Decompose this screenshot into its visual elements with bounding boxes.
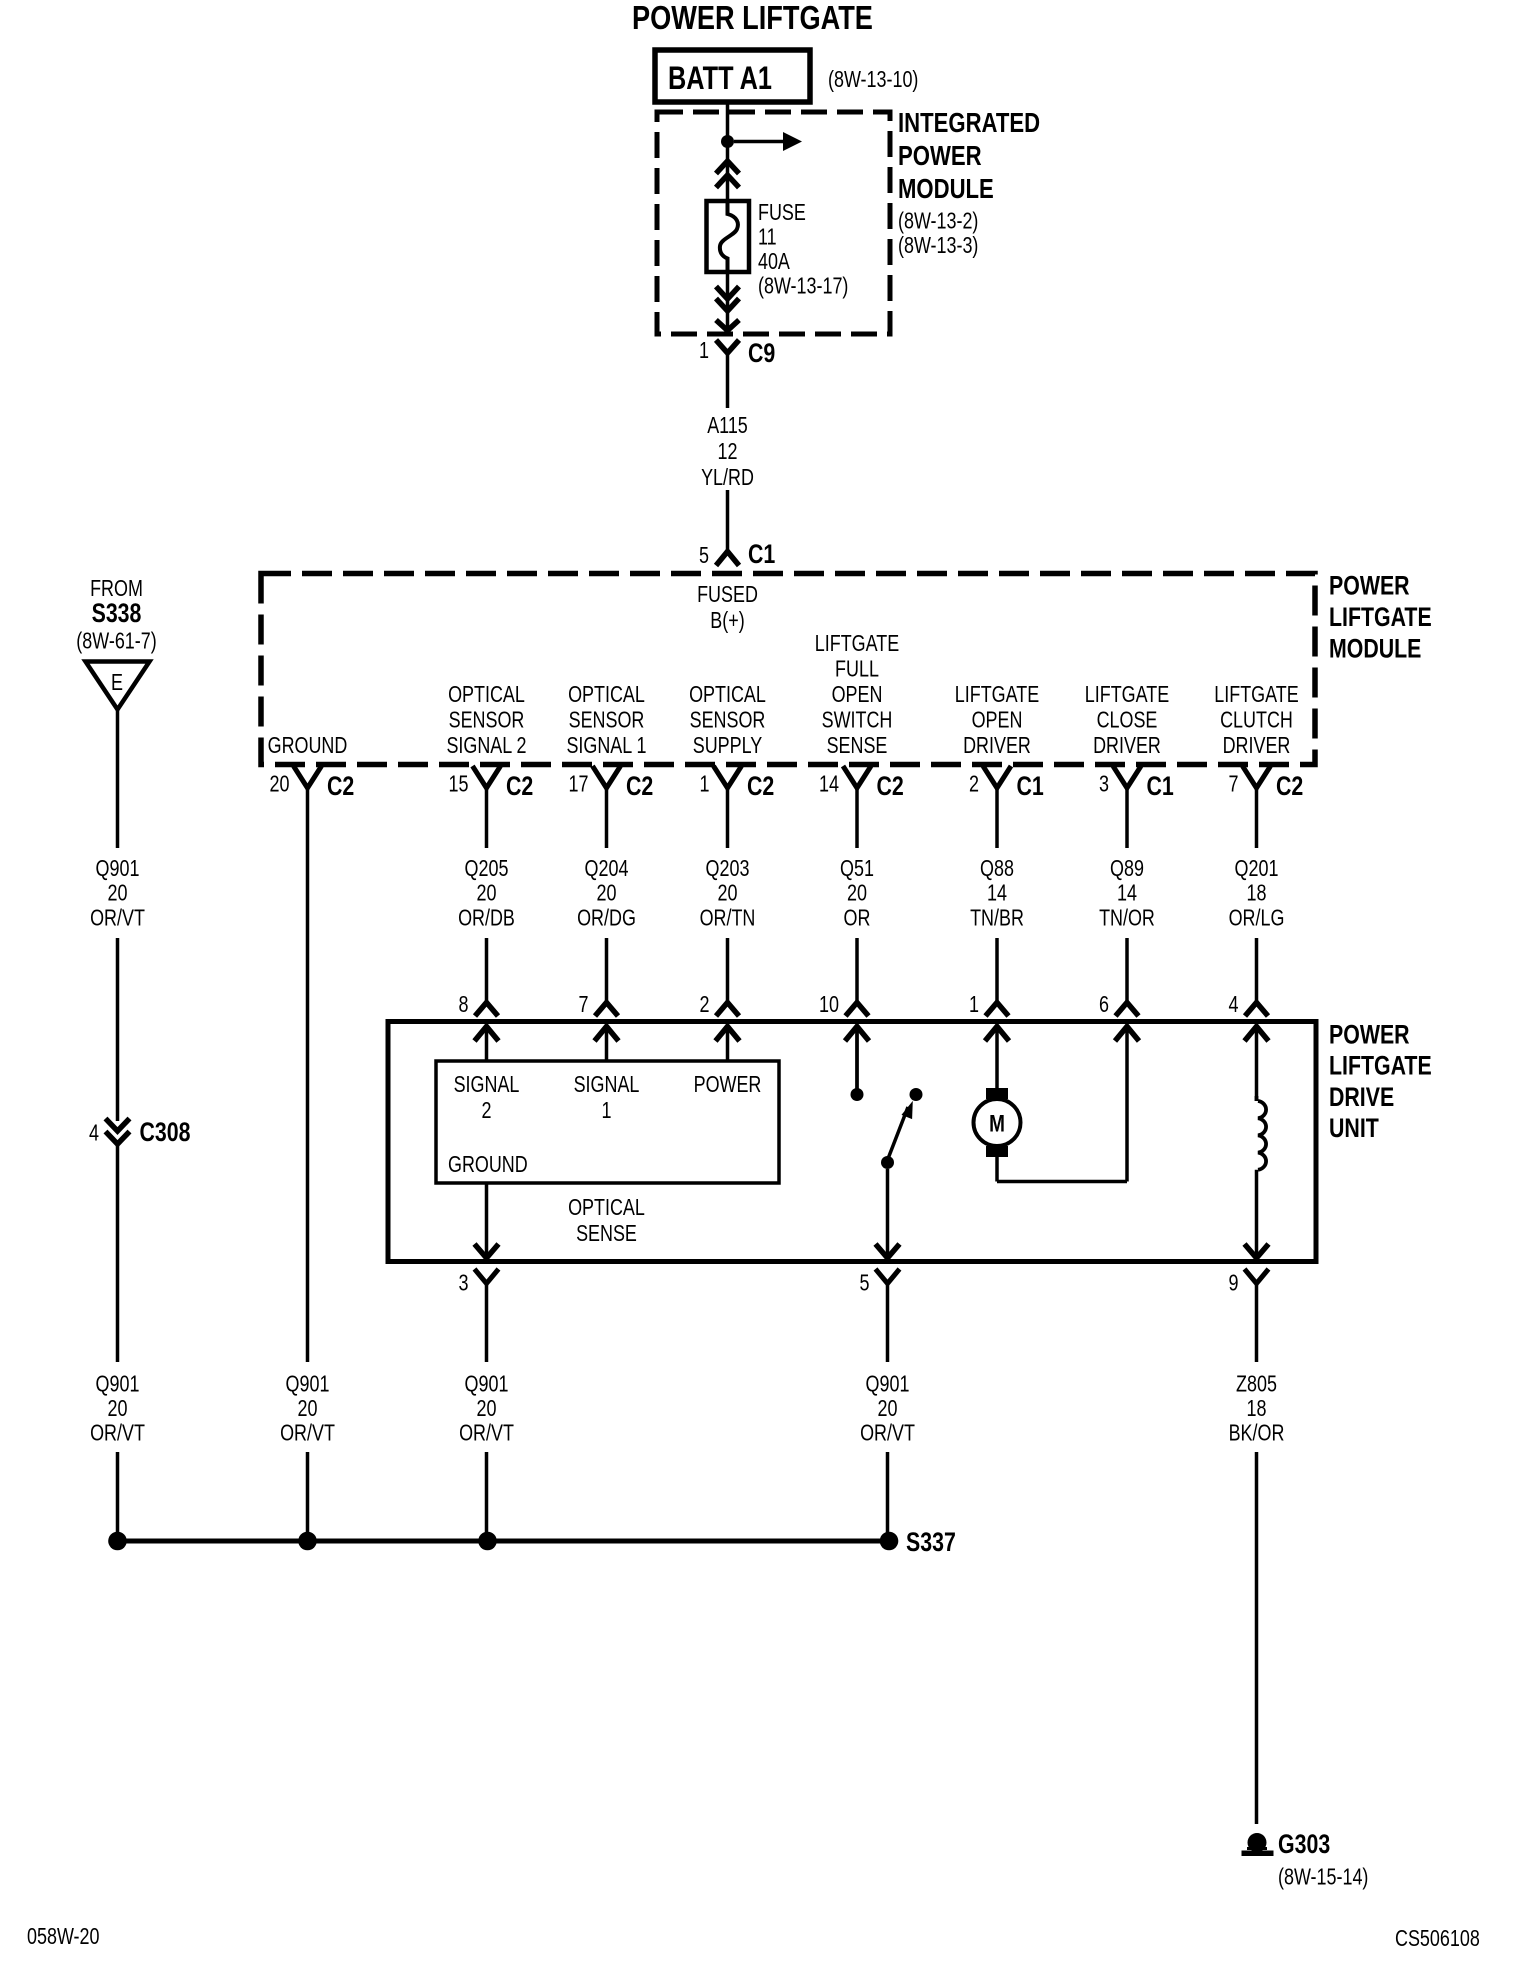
svg-text:SIGNAL: SIGNAL [454,1071,520,1097]
liftgate motor M [986,1088,1008,1099]
liftgate full open switch [855,1027,859,1095]
svg-text:MODULE: MODULE [898,173,994,204]
svg-text:(8W-13-3): (8W-13-3) [898,232,978,258]
connector C1 pin 3 [1113,766,1141,788]
svg-text:9: 9 [1229,1270,1239,1296]
clutch coil [1257,1096,1267,1170]
svg-text:Q901: Q901 [96,855,140,881]
svg-text:SIGNAL 2: SIGNAL 2 [446,732,526,758]
connector C2 pin 14 [843,766,871,788]
wires to drive unit [485,938,489,1003]
svg-text:BATT A1: BATT A1 [668,60,772,96]
svg-text:7: 7 [1229,771,1239,797]
svg-text:(8W-13-17): (8W-13-17) [758,273,848,299]
svg-text:C2: C2 [877,771,904,801]
svg-text:Q88: Q88 [980,855,1014,881]
svg-text:LIFTGATE: LIFTGATE [1329,602,1432,632]
svg-text:FULL: FULL [835,656,879,682]
connector C2 pin 15 [473,766,501,788]
ground G303 [1248,1833,1267,1852]
svg-text:C2: C2 [506,771,533,801]
svg-text:SIGNAL: SIGNAL [574,1071,640,1097]
svg-text:LIFTGATE: LIFTGATE [815,630,899,656]
drive unit pin 8 [475,1003,498,1017]
svg-text:Q901: Q901 [866,1371,910,1397]
optical sensor block [436,1061,779,1183]
svg-text:Q203: Q203 [706,855,750,881]
svg-text:SENSOR: SENSOR [449,707,525,733]
svg-text:4: 4 [89,1120,99,1146]
svg-text:SENSOR: SENSOR [690,707,766,733]
svg-text:OR/VT: OR/VT [280,1420,335,1446]
svg-text:40A: 40A [758,248,790,274]
connector C2 pin 17 [593,766,621,788]
svg-text:20: 20 [477,880,497,906]
wire from triangle [116,710,120,849]
svg-text:20: 20 [847,880,867,906]
svg-text:20: 20 [298,1395,318,1421]
svg-text:18: 18 [1247,880,1267,906]
drive unit pin 2 [716,1003,739,1017]
svg-text:3: 3 [459,1270,469,1296]
svg-text:SWITCH: SWITCH [822,707,893,733]
connector C1 pin 2 [983,766,1011,788]
svg-text:M: M [989,1111,1005,1138]
wires below module [306,788,310,1362]
connector C9 pin 1 [716,340,739,353]
svg-text:Q89: Q89 [1110,855,1144,881]
feed arrow to other circuits [734,140,783,144]
svg-text:SUPPLY: SUPPLY [693,732,763,758]
svg-text:POWER: POWER [694,1071,762,1097]
svg-text:OR: OR [844,904,871,930]
connector C2 pin 1 [714,766,742,788]
svg-text:2: 2 [969,771,979,797]
svg-text:POWER: POWER [1329,571,1410,601]
svg-text:C2: C2 [626,771,653,801]
svg-text:CS506108: CS506108 [1395,1925,1480,1951]
svg-text:CLOSE: CLOSE [1097,707,1158,733]
svg-text:Q901: Q901 [465,1371,509,1397]
svg-text:20: 20 [597,880,617,906]
svg-text:OR/DG: OR/DG [577,904,636,930]
svg-text:G303: G303 [1278,1829,1330,1859]
svg-text:C1: C1 [1147,771,1174,801]
svg-text:POWER LIFTGATE: POWER LIFTGATE [632,0,873,36]
fuse 11 40A [707,201,750,272]
svg-text:3: 3 [1099,771,1109,797]
svg-text:LIFTGATE: LIFTGATE [1329,1051,1432,1081]
svg-text:C2: C2 [747,771,774,801]
svg-text:1: 1 [969,991,979,1017]
battery feed box BATT A1 [655,50,810,102]
power liftgate module dashed box [261,574,1315,765]
svg-text:14: 14 [819,771,839,797]
drive unit pin 9 [1245,1269,1269,1284]
svg-text:C1: C1 [748,539,775,569]
svg-text:OR/DB: OR/DB [458,904,515,930]
svg-text:Q204: Q204 [585,855,629,881]
svg-text:OPEN: OPEN [832,681,883,707]
entry arrows inside drive unit [475,1027,499,1042]
svg-text:INTEGRATED: INTEGRATED [898,107,1040,138]
wire from BATT A1 into module [726,102,730,201]
svg-text:OPTICAL: OPTICAL [568,681,645,707]
svg-text:2: 2 [700,991,710,1017]
off-page triangle E [86,662,150,710]
svg-text:2: 2 [482,1097,492,1123]
svg-text:FUSE: FUSE [758,199,806,225]
svg-text:14: 14 [987,880,1007,906]
svg-text:6: 6 [1099,991,1109,1017]
svg-text:OPEN: OPEN [972,707,1023,733]
svg-text:OR/VT: OR/VT [90,904,145,930]
svg-text:20: 20 [108,1395,128,1421]
svg-text:OPTICAL: OPTICAL [568,1194,645,1220]
drive unit pin 7 [595,1003,618,1017]
svg-text:S338: S338 [92,598,142,628]
svg-text:5: 5 [699,542,709,568]
wires to splice bus [306,1452,310,1534]
svg-text:YL/RD: YL/RD [701,464,754,490]
svg-text:UNIT: UNIT [1329,1113,1379,1143]
drive unit pin 4 [1245,1003,1268,1017]
drive unit pin 10 [846,1003,869,1017]
exit connector chevrons down [716,287,739,300]
svg-text:SIGNAL 1: SIGNAL 1 [566,732,646,758]
svg-text:GROUND: GROUND [448,1151,528,1177]
svg-text:B(+): B(+) [710,607,744,633]
wire motor to pin 6 [995,1157,999,1182]
svg-text:BK/OR: BK/OR [1229,1420,1285,1446]
svg-text:Q201: Q201 [1235,855,1279,881]
svg-text:4: 4 [1229,991,1239,1017]
svg-text:DRIVE: DRIVE [1329,1082,1394,1112]
svg-text:C1: C1 [1017,771,1044,801]
svg-text:DRIVER: DRIVER [1223,732,1291,758]
svg-text:10: 10 [819,991,839,1017]
connector C1 pin 5 [726,541,730,552]
integrated power module dashed box [657,112,890,334]
svg-text:SENSE: SENSE [576,1220,637,1246]
svg-text:1: 1 [699,337,709,363]
svg-text:8: 8 [459,991,469,1017]
svg-text:OR/VT: OR/VT [860,1420,915,1446]
svg-text:OR/LG: OR/LG [1229,904,1285,930]
svg-text:CLUTCH: CLUTCH [1220,707,1293,733]
ground wire inside drive unit [485,1183,489,1258]
svg-text:20: 20 [718,880,738,906]
svg-text:C2: C2 [1276,771,1303,801]
svg-text:Q901: Q901 [286,1371,330,1397]
svg-text:LIFTGATE: LIFTGATE [1085,681,1169,707]
svg-text:MODULE: MODULE [1329,634,1421,664]
internal connector chevrons up [716,161,739,174]
svg-text:A115: A115 [707,412,748,438]
svg-text:GROUND: GROUND [268,732,348,758]
svg-text:DRIVER: DRIVER [1093,732,1161,758]
svg-text:SENSOR: SENSOR [569,707,645,733]
svg-text:SENSE: SENSE [827,732,888,758]
svg-text:Q901: Q901 [96,1371,140,1397]
svg-text:7: 7 [579,991,589,1017]
drive unit pin 6 [1116,1003,1139,1017]
svg-text:20: 20 [270,771,290,797]
svg-text:20: 20 [477,1395,497,1421]
svg-text:(8W-15-14): (8W-15-14) [1278,1864,1368,1890]
connector C308 pin 4 [106,1119,130,1132]
svg-text:17: 17 [569,771,589,797]
svg-text:(8W-13-10): (8W-13-10) [828,66,918,92]
drive unit pin 3 [475,1269,499,1284]
svg-text:11: 11 [758,224,777,250]
svg-text:15: 15 [449,771,469,797]
drive unit pin 5 [876,1269,900,1284]
svg-text:5: 5 [860,1270,870,1296]
svg-text:S337: S337 [906,1527,956,1557]
svg-text:(8W-61-7): (8W-61-7) [76,628,156,654]
svg-text:OR/VT: OR/VT [459,1420,514,1446]
svg-text:LIFTGATE: LIFTGATE [1214,681,1298,707]
svg-text:Q51: Q51 [840,855,874,881]
svg-text:POWER: POWER [898,140,982,171]
svg-text:1: 1 [700,771,710,797]
svg-text:12: 12 [718,438,738,464]
svg-text:18: 18 [1247,1395,1267,1421]
svg-text:FUSED: FUSED [697,581,758,607]
svg-text:E: E [111,669,123,695]
svg-text:058W-20: 058W-20 [27,1923,100,1949]
svg-text:Z805: Z805 [1236,1371,1277,1397]
svg-text:TN/BR: TN/BR [970,904,1024,930]
svg-text:OR/VT: OR/VT [90,1420,145,1446]
svg-text:14: 14 [1117,880,1137,906]
svg-text:C9: C9 [748,338,775,368]
wire fuse to module edge [726,272,730,330]
svg-text:OPTICAL: OPTICAL [448,681,525,707]
svg-text:TN/OR: TN/OR [1099,904,1155,930]
svg-text:1: 1 [602,1097,612,1123]
svg-text:POWER: POWER [1329,1020,1410,1050]
svg-text:C2: C2 [327,771,354,801]
svg-text:DRIVER: DRIVER [963,732,1031,758]
svg-text:OPTICAL: OPTICAL [689,681,766,707]
svg-text:20: 20 [878,1395,898,1421]
drive unit pin 1 [986,1003,1009,1017]
arrowhead at module edge [716,320,739,331]
svg-text:Q205: Q205 [465,855,509,881]
svg-text:LIFTGATE: LIFTGATE [955,681,1039,707]
junction node [721,135,734,148]
power liftgate drive unit box [388,1022,1316,1262]
splice S337 bus [118,1539,890,1544]
svg-text:20: 20 [108,880,128,906]
connector C2 pin 20 [294,766,322,788]
svg-text:C308: C308 [140,1117,191,1147]
svg-text:(8W-13-2): (8W-13-2) [898,208,978,234]
svg-text:OR/TN: OR/TN [700,904,756,930]
connector C2 pin 7 [1243,766,1271,788]
